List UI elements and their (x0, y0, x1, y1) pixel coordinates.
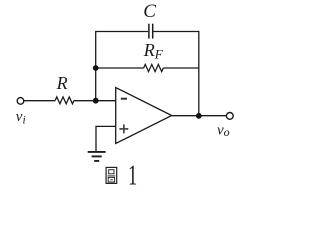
svg-text:C: C (143, 1, 156, 22)
svg-text:RF: RF (143, 40, 164, 62)
caption figure character 圖 (106, 167, 117, 183)
svg-text:1: 1 (128, 161, 137, 192)
wire from R to op-amp inverting input (74, 100, 116, 102)
wire output from op-amp apex to terminal (172, 115, 227, 117)
svg-text:vo: vo (217, 122, 230, 139)
wire top-right from capacitor to node B (153, 31, 198, 33)
wire input lead from terminal to R (24, 100, 55, 102)
terminal vo (226, 113, 233, 120)
op-amp U1 (116, 88, 172, 144)
resistor R (55, 97, 74, 104)
svg-text:R: R (56, 73, 68, 93)
svg-text:vi: vi (16, 109, 26, 127)
wire left vertical (node A branch) (95, 31, 97, 101)
wire top-left from node A to capacitor (96, 31, 148, 33)
node A junction dot (RF tap) (93, 65, 99, 71)
node A junction dot (inverting input) (93, 98, 99, 104)
wire RF right lead (163, 67, 199, 69)
wire non-inverting input to ground (96, 126, 116, 151)
wire RF left lead (96, 67, 144, 69)
resistor RF (144, 64, 164, 71)
capacitor C (149, 24, 153, 39)
wire right vertical (node B branch) (198, 31, 200, 116)
minus marker (121, 98, 127, 100)
ground (88, 152, 106, 161)
plus marker (119, 124, 128, 133)
terminal vi (17, 98, 24, 105)
node B junction dot (output) (196, 113, 202, 119)
